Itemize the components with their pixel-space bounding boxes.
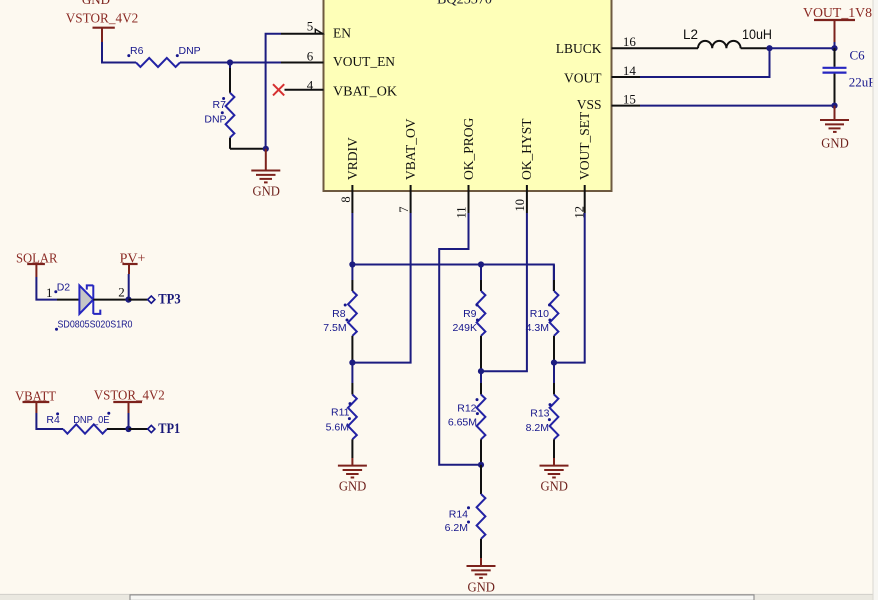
resistor R9 — [452, 265, 485, 372]
svg-text:7.5M: 7.5M — [323, 322, 346, 334]
wire R6 to pin 6 — [180, 62, 281, 64]
svg-text:OK_HYST: OK_HYST — [519, 118, 534, 180]
node junction VSS/C6 — [831, 103, 837, 109]
node junction R6/R7 — [227, 59, 233, 65]
diode D2 pin1 lead — [57, 299, 79, 301]
svg-text:GND: GND — [339, 478, 367, 493]
node junction R9/R12/pin10 — [478, 368, 484, 374]
svg-text:VBAT_OV: VBAT_OV — [403, 118, 418, 180]
pin 8 stub — [351, 185, 353, 213]
node junction PV+/D2/TP3 — [125, 297, 131, 303]
pin 5 input arrow marker — [315, 29, 322, 33]
node junction R10/R13/pin12 — [551, 360, 557, 366]
svg-text:VRDIV: VRDIV — [345, 137, 360, 180]
svg-text:R11: R11 — [331, 407, 350, 419]
no-ERC X marker on pin 4 — [273, 84, 284, 95]
svg-text:6.2M: 6.2M — [445, 522, 468, 534]
node junction R12/R14/pin11 — [478, 462, 484, 468]
svg-text:11: 11 — [455, 206, 469, 218]
wire pin7 down — [352, 213, 410, 363]
svg-text:R9: R9 — [463, 308, 477, 320]
pin 12 stub — [584, 185, 586, 213]
svg-text:R4: R4 — [46, 414, 60, 426]
svg-text:7: 7 — [397, 207, 411, 213]
svg-text:6.65M: 6.65M — [448, 417, 477, 429]
wire pin12 down — [554, 213, 585, 363]
wire R7 bottom to GND node — [230, 148, 266, 150]
wire pin14 up to L2 output — [640, 48, 770, 77]
test point TP1 — [148, 421, 181, 437]
svg-text:6: 6 — [307, 48, 314, 63]
svg-text:5.6M: 5.6M — [326, 422, 349, 434]
svg-text:8: 8 — [339, 196, 353, 202]
resistor R4 — [46, 412, 110, 434]
wire VOUT_1V8 stem to node — [834, 42, 836, 48]
pin 14 stub — [612, 76, 641, 78]
wire pin5 riser — [266, 34, 281, 149]
ground GND (under R11) — [338, 458, 367, 493]
wire pin10 down — [481, 213, 527, 371]
svg-text:VOUT_EN: VOUT_EN — [333, 54, 395, 69]
ground GND (under R13) — [540, 458, 569, 493]
svg-text:R12: R12 — [457, 403, 476, 415]
power port VBATT — [15, 389, 56, 413]
wire pin15 VSS — [640, 105, 835, 107]
svg-text:R6: R6 — [130, 45, 144, 57]
wire divider bus — [352, 265, 553, 292]
svg-text:DNP_0E: DNP_0E — [73, 414, 109, 426]
ground GND (right, under C6) — [820, 106, 849, 151]
node junction bus/R8 — [349, 261, 355, 267]
svg-text:16: 16 — [623, 34, 637, 49]
wire to TP1 — [129, 428, 148, 430]
svg-text:VOUT_SET: VOUT_SET — [577, 111, 592, 180]
svg-text:R7: R7 — [213, 99, 227, 111]
resistor R6 — [127, 45, 200, 67]
wire to TP3 — [129, 299, 148, 301]
wire pin8 down to divider bus — [351, 213, 353, 265]
pin 4 stub — [285, 89, 324, 91]
ground GND (under R14) — [467, 558, 496, 595]
node junction R8/R11/pin7 — [349, 360, 355, 366]
wire R4 to TP1 node — [107, 428, 129, 430]
wire inductor to VOUT_1V8 node — [741, 47, 770, 49]
capacitor C6 — [823, 48, 878, 106]
pin 5 stub — [281, 33, 324, 35]
node junction EN/R7/GND — [263, 146, 269, 152]
svg-text:EN: EN — [333, 25, 351, 40]
svg-text:DNP: DNP — [204, 113, 226, 125]
resistor R12 — [448, 371, 486, 465]
power port SOLAR — [16, 251, 58, 277]
wire VBATT to R4 — [36, 413, 63, 429]
power port PV+ — [120, 251, 146, 274]
test point TP3 — [148, 292, 181, 308]
wire VSTOR lower stem — [128, 413, 130, 429]
wire SOLAR to diode anode — [36, 277, 57, 300]
svg-text:BQ25570: BQ25570 — [437, 0, 492, 6]
svg-text:R14: R14 — [449, 509, 468, 521]
node junction R4/VSTOR/TP1 — [125, 426, 131, 432]
svg-text:VSTOR_4V2: VSTOR_4V2 — [66, 11, 139, 26]
wire pin11 down long — [439, 213, 481, 465]
svg-text:L2: L2 — [683, 27, 698, 42]
horizontal scrollbar thumb — [130, 595, 754, 600]
node junction bus/R9 — [478, 261, 484, 267]
svg-text:TP1: TP1 — [158, 421, 180, 437]
svg-text:VOUT: VOUT — [564, 70, 602, 85]
svg-text:5: 5 — [307, 19, 314, 34]
svg-text:GND: GND — [252, 183, 280, 198]
resistor R7 — [204, 63, 234, 149]
resistor R14 — [445, 465, 486, 558]
wire VSTOR to R6 — [102, 42, 136, 63]
pin 16 stub — [612, 47, 641, 49]
svg-text:SD0805S020S1R0: SD0805S020S1R0 — [58, 318, 133, 330]
svg-text:GND: GND — [82, 0, 110, 7]
horizontal scrollbar track — [0, 594, 878, 600]
svg-text:GND: GND — [821, 136, 849, 151]
pin 15 stub — [612, 105, 641, 107]
svg-text:R8: R8 — [332, 308, 346, 320]
svg-text:GND: GND — [467, 580, 495, 595]
svg-text:TP3: TP3 — [158, 292, 180, 308]
resistor R13 — [526, 363, 559, 458]
svg-text:DNP: DNP — [179, 45, 201, 57]
svg-text:8.2M: 8.2M — [526, 422, 549, 434]
svg-text:10uH: 10uH — [742, 27, 772, 42]
diode D2 (schottky SD0805S020S1R0) — [54, 281, 132, 330]
svg-text:14: 14 — [623, 63, 637, 78]
op-amp U1 body (BQ25570 IC rectangle) — [324, 0, 612, 191]
wire pin16 to inductor — [640, 47, 698, 49]
node junction L2/VOUT wire — [766, 45, 772, 51]
svg-text:4.3M: 4.3M — [526, 322, 549, 334]
svg-text:VSS: VSS — [577, 97, 602, 112]
svg-text:OK_PROG: OK_PROG — [461, 117, 476, 180]
power port VSTOR_4V2 (top left) — [66, 11, 139, 42]
power port VSTOR_4V2 (lower) — [94, 389, 165, 413]
pin 7 stub — [410, 185, 412, 213]
wire PV+ stem — [128, 274, 130, 300]
inductor L2 — [683, 27, 772, 48]
svg-text:2: 2 — [118, 284, 125, 299]
resistor R10 — [526, 265, 559, 363]
svg-text:10: 10 — [513, 199, 527, 212]
pin 6 stub — [281, 62, 324, 64]
svg-text:LBUCK: LBUCK — [556, 41, 602, 56]
resistor R11 — [326, 363, 357, 458]
svg-text:VBAT_OK: VBAT_OK — [333, 83, 397, 98]
svg-text:R13: R13 — [530, 408, 549, 420]
pin 11 stub — [468, 185, 470, 213]
resistor R8 — [323, 265, 357, 363]
svg-text:1: 1 — [46, 285, 53, 300]
power port VOUT_1V8 — [803, 5, 872, 42]
ground GND (left of IC) — [251, 149, 280, 199]
svg-text:D2: D2 — [57, 281, 71, 293]
svg-text:R10: R10 — [530, 308, 549, 320]
diode D2 pin2 lead — [93, 299, 128, 301]
vertical scrollbar strip (right edge) — [874, 0, 878, 600]
svg-text:15: 15 — [623, 91, 636, 106]
svg-text:C6: C6 — [850, 48, 866, 63]
svg-text:VOUT_1V8: VOUT_1V8 — [803, 5, 872, 20]
svg-text:249K: 249K — [452, 322, 477, 334]
pin 10 stub — [526, 185, 528, 213]
node junction VOUT_1V8 — [831, 45, 837, 51]
svg-text:GND: GND — [540, 478, 568, 493]
